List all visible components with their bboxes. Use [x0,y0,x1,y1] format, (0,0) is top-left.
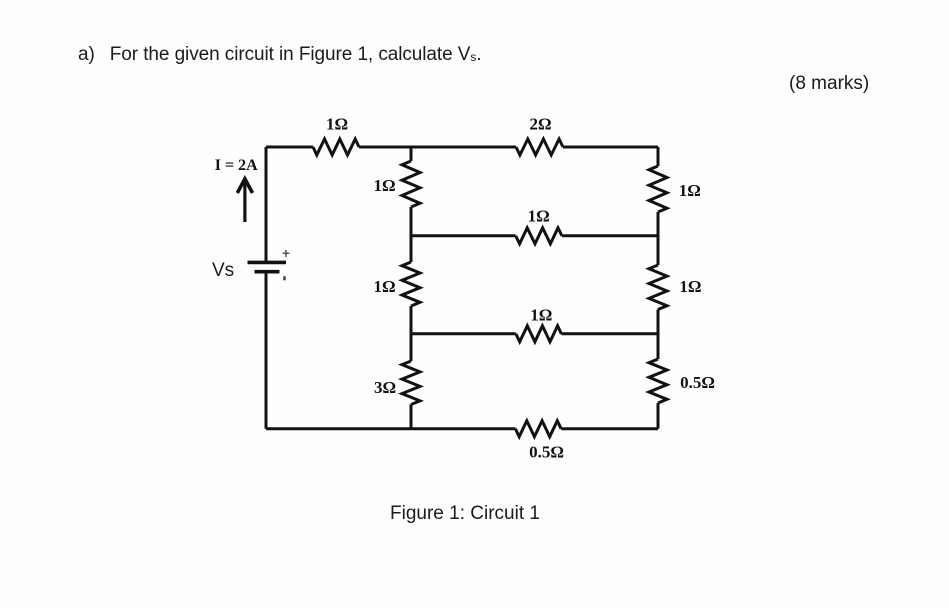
svg-text:1Ω: 1Ω [528,207,550,226]
svg-text:I = 2A: I = 2A [215,157,258,174]
svg-text:0.5Ω: 0.5Ω [529,443,564,462]
svg-text:1Ω: 1Ω [679,277,701,296]
svg-text:1Ω: 1Ω [373,277,395,296]
svg-text:2Ω: 2Ω [529,114,551,133]
svg-text:1Ω: 1Ω [679,181,701,200]
svg-text:1Ω: 1Ω [373,176,395,195]
svg-text:0.5Ω: 0.5Ω [680,373,715,392]
svg-text:1Ω: 1Ω [326,115,348,134]
svg-text:+: + [282,246,290,261]
svg-text:1Ω: 1Ω [530,306,552,325]
svg-text:3Ω: 3Ω [374,378,396,397]
